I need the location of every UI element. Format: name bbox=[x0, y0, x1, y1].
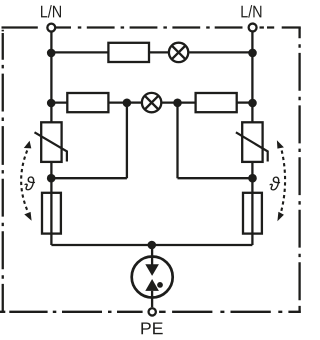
junction dot left rail row2 bbox=[47, 99, 56, 108]
enclosure dash-dot border: bottom edge bbox=[0, 311, 301, 313]
resistor R2 (left monitoring resistor) bbox=[67, 93, 108, 112]
fuse F1 (left thermal disconnector) bbox=[42, 193, 61, 234]
resistor R1 (top monitoring resistor) bbox=[108, 43, 149, 62]
varistor RV2 (right) body bbox=[242, 122, 262, 162]
junction dot node A bbox=[123, 99, 132, 108]
spark gap F3 (summation spark gap) circle bbox=[132, 257, 173, 298]
terminal L/N right bbox=[249, 24, 257, 32]
wire: drop from node A down bbox=[126, 103, 128, 179]
spark gap trigger dot bbox=[157, 282, 163, 288]
enclosure dash-dot border: right edge bbox=[298, 28, 300, 313]
wire: left cross link to varistor output node bbox=[51, 177, 127, 179]
wire: right cross link to varistor output node bbox=[178, 177, 253, 179]
varistor RV1 diagonal stroke bbox=[35, 132, 67, 161]
terminal PE bottom bbox=[149, 308, 156, 315]
junction dot below varistor RV1 bbox=[47, 174, 56, 183]
terminal L/N left bbox=[47, 24, 55, 32]
fuse F2 (right thermal disconnector) bbox=[243, 193, 262, 234]
junction dot right rail row2 bbox=[248, 99, 257, 108]
wire: center down to spark gap bbox=[151, 245, 153, 265]
spark gap electrode arrow (top, pointing down) bbox=[145, 264, 159, 276]
indicator lamp H1 (circle with X) bbox=[169, 43, 188, 62]
label L/N left bbox=[41, 6, 47, 18]
label PE bbox=[141, 323, 150, 335]
label theta left bbox=[25, 176, 36, 190]
wire: drop from node B down bbox=[176, 103, 178, 179]
wire: R1 to lamp H1 bbox=[149, 51, 168, 53]
left arc arrowhead top bbox=[24, 141, 32, 149]
wire: lamp H1 to right rail bbox=[189, 51, 252, 53]
wire: right main vertical L/N rail bbox=[251, 32, 253, 122]
left arc arrowhead bottom bbox=[24, 212, 31, 221]
resistor R3 (right monitoring resistor) bbox=[196, 93, 237, 112]
wire: R3 to right rail bbox=[237, 101, 253, 103]
junction dot left rail row1 bbox=[47, 49, 56, 58]
right arc arrowhead bottom bbox=[277, 212, 284, 222]
wire: left main vertical L/N rail bbox=[50, 32, 52, 122]
label theta right bbox=[270, 177, 281, 191]
thermal disconnect dashed arc (right) bbox=[281, 151, 285, 212]
junction dot below varistor RV2 bbox=[248, 174, 257, 183]
label L/N right bbox=[241, 6, 247, 18]
enclosure dash-dot border: left edge bbox=[2, 30, 4, 313]
varistor RV1 (left) body bbox=[41, 122, 61, 162]
junction dot node B bbox=[173, 99, 182, 108]
indicator lamp H2 (center circle with X) bbox=[142, 93, 161, 112]
wire: row2 left rail to resistor R2 bbox=[51, 101, 67, 103]
wire: bottom bus left to center bbox=[51, 244, 152, 246]
junction dot right rail row1 bbox=[248, 49, 257, 58]
wire: bottom bus right to center bbox=[152, 244, 252, 246]
right arc arrowhead top bbox=[277, 140, 284, 148]
wire: row1 left rail to resistor R1 bbox=[51, 51, 108, 53]
wire: R2 to node A bbox=[108, 101, 127, 103]
thermal disconnect dashed arc (left) bbox=[21, 151, 28, 212]
spark gap electrode arrow (bottom, pointing up) bbox=[145, 279, 159, 291]
varistor RV2 diagonal stroke bbox=[236, 132, 268, 161]
junction dot bottom bus center bbox=[148, 241, 157, 250]
enclosure dash-dot border: top edge bbox=[2, 26, 301, 28]
wire: lamp H2 to node B bbox=[161, 101, 177, 103]
wire: node A to lamp H2 bbox=[127, 101, 142, 103]
wire: node B to resistor R3 bbox=[178, 101, 196, 103]
